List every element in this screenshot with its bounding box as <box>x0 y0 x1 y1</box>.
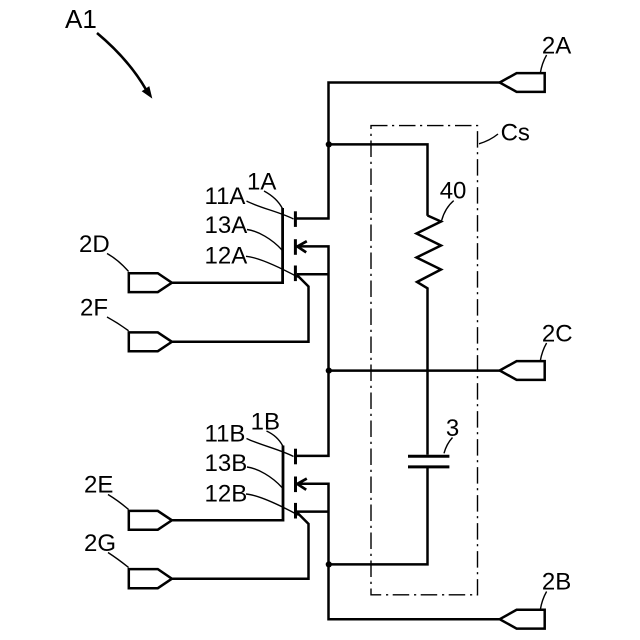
svg-text:2D: 2D <box>79 231 110 258</box>
leader from 2A label to terminal <box>540 55 546 73</box>
wire transistor 1A bottom lead to bus <box>297 273 329 276</box>
svg-text:13A: 13A <box>205 212 248 239</box>
wire transistor 1B bottom lead to bus <box>297 510 329 513</box>
terminal 2F <box>129 332 172 351</box>
capacitor 3 top plate <box>408 455 449 458</box>
wire transistor 1A source diagonal down to 2F <box>172 275 309 342</box>
capacitor 3 bottom plate <box>408 465 449 468</box>
junction node at bus and resistor branch <box>326 141 332 147</box>
leader from 2F label to terminal <box>107 317 129 331</box>
terminal 2C <box>500 361 545 380</box>
leader from 13A label to electrode 13A <box>247 230 282 251</box>
wire 2D terminal to transistor 1A gate <box>172 282 283 285</box>
wire capacitor bottom to bus <box>328 468 428 564</box>
transistor 1A gate bar <box>281 208 284 284</box>
leader from 2E label to terminal <box>108 495 129 510</box>
terminal 2E <box>129 511 172 530</box>
transistor 1A electrode 12A (bottom stub) <box>294 266 297 282</box>
leader from 40 label to resistor <box>442 201 454 221</box>
junction node bus at 2C <box>326 368 332 374</box>
wire bus to resistor 40 <box>328 144 428 215</box>
transistor 1A electrode 11A (top stub) <box>294 211 297 227</box>
svg-text:2F: 2F <box>80 295 108 322</box>
svg-text:1A: 1A <box>247 169 276 196</box>
terminal 2D <box>129 273 172 292</box>
wire transistor 1A middle lead down bus to transistor 1B top lead <box>294 246 329 456</box>
svg-text:Cs: Cs <box>501 120 530 147</box>
junction node bus at capacitor return <box>326 561 332 567</box>
transistor 1A arrow on electrode 13A <box>297 241 307 252</box>
leader from Cs label to box <box>479 134 498 144</box>
transistor 1B electrode 12B (bottom stub) <box>294 503 297 519</box>
svg-text:12A: 12A <box>205 242 248 269</box>
svg-text:1B: 1B <box>251 409 280 436</box>
svg-text:13B: 13B <box>205 450 248 477</box>
svg-text:A1: A1 <box>65 4 97 34</box>
leader from 1A label to transistor gate bar top <box>264 191 282 209</box>
terminal 2A <box>500 73 545 92</box>
leader from 13B label to electrode 13B <box>247 467 282 488</box>
wire 2E terminal to transistor 1B gate <box>172 519 283 522</box>
leader from 11A label to electrode 11A <box>247 201 294 219</box>
wire 2C terminal to bus <box>329 369 500 372</box>
leader from 2G label to terminal <box>108 553 129 568</box>
terminal 2G <box>129 569 172 588</box>
transistor 1A electrode 13A (middle stub) <box>294 239 297 255</box>
leader from 2C label to terminal <box>540 343 546 361</box>
transistor 1B arrow on electrode 13B <box>297 479 307 490</box>
transistor 1B electrode 13B (middle stub) <box>294 477 297 493</box>
leader from 12A label to electrode 12A <box>246 256 299 277</box>
svg-text:2G: 2G <box>84 530 116 557</box>
leader from 12B label to electrode 12B <box>246 494 299 515</box>
transistor 1B gate bar <box>282 446 285 522</box>
leader from 2D label to terminal <box>107 254 129 272</box>
leader from 3 label to capacitor <box>444 438 453 454</box>
leader from 1B label to transistor gate bar top <box>267 431 283 446</box>
leader from 11B label to electrode 11B <box>247 439 294 457</box>
svg-text:11A: 11A <box>205 183 246 210</box>
wire transistor 1B middle lead down bus to 2B <box>297 484 500 619</box>
svg-text:12B: 12B <box>205 481 248 508</box>
terminal 2B <box>500 610 545 629</box>
resistor 40 zigzag <box>417 216 442 455</box>
wire transistor 1B source diagonal down to 2G <box>172 512 309 578</box>
wire 2A terminal to bus and transistor 1A collector lead <box>294 83 500 219</box>
svg-text:11B: 11B <box>205 421 246 448</box>
arrow leader from A1 <box>97 33 152 99</box>
transistor 1B electrode 11B (top stub) <box>294 449 297 465</box>
box Cs (dash-dot snubber boundary) <box>371 126 478 595</box>
leader from 2B label to terminal <box>540 592 546 610</box>
